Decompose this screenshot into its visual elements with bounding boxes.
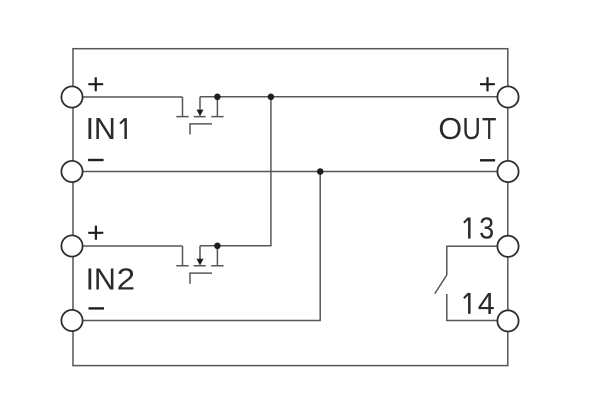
transistor Q2 (MOSFET)	[176, 246, 223, 284]
svg-text:N: N	[94, 112, 116, 146]
svg-text:T: T	[482, 112, 496, 146]
polarity - IN1	[88, 159, 104, 161]
terminal OUT-	[497, 161, 518, 182]
polarity - IN2	[89, 307, 105, 309]
switch contact 13-14	[435, 275, 447, 294]
label pin 14	[464, 287, 495, 321]
wire IN2- to OUT- node	[83, 172, 321, 321]
wire IN2+ to Q2 source	[83, 245, 183, 247]
label OUT	[438, 112, 496, 146]
wire IN1- to OUT-	[83, 171, 498, 173]
polarity + IN2	[88, 226, 103, 240]
junction OUT+ node	[268, 94, 275, 101]
svg-text:3: 3	[479, 212, 494, 246]
polarity + IN1	[88, 77, 103, 91]
wire Q2 drain to OUT+ node	[200, 97, 271, 246]
svg-text:4: 4	[478, 287, 495, 321]
terminal OUT+	[497, 86, 518, 107]
svg-text:O: O	[438, 112, 462, 146]
transistor Q1 (MOSFET)	[176, 97, 223, 135]
junction OUT- node	[317, 168, 324, 175]
wire contact 14 branch	[447, 294, 498, 321]
svg-text:I: I	[86, 263, 94, 297]
terminal 14	[497, 310, 518, 331]
terminal IN2+	[61, 235, 82, 256]
polarity + OUT	[480, 77, 495, 91]
junction Q1 drain node	[214, 94, 221, 101]
wire contact 13 branch	[447, 246, 498, 275]
label IN2	[86, 263, 136, 297]
terminal 13	[497, 236, 518, 257]
svg-text:U: U	[462, 112, 481, 146]
module outline	[73, 49, 508, 366]
svg-text:N: N	[94, 263, 116, 297]
polarity - OUT	[480, 159, 495, 161]
svg-text:I: I	[86, 112, 94, 146]
label IN1	[86, 112, 126, 146]
junction Q2 drain node	[214, 243, 221, 250]
terminal IN1-	[61, 161, 82, 182]
wire IN1+ to Q1 source	[83, 96, 183, 98]
wire Q1 drain to OUT+	[200, 96, 497, 98]
terminal IN1+	[61, 86, 82, 107]
label pin 13	[464, 212, 494, 246]
svg-text:2: 2	[117, 263, 136, 297]
terminal IN2-	[61, 310, 82, 331]
